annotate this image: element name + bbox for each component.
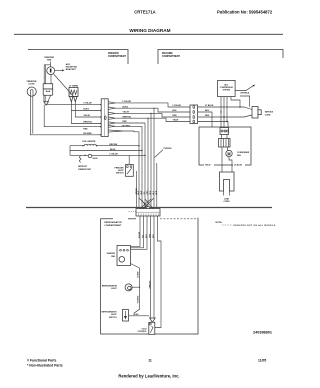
svg-text:BRACKET: BRACKET	[66, 68, 77, 71]
svg-text:YEL/W: YEL/W	[83, 115, 89, 117]
svg-text:ORANGE: ORANGE	[148, 280, 151, 289]
svg-text:COMPARTMENT: COMPARTMENT	[162, 55, 181, 58]
svg-text:LT BLUE: LT BLUE	[83, 102, 92, 104]
svg-text:# Functional Parts: # Functional Parts	[27, 359, 57, 363]
svg-text:COIL HEATER: COIL HEATER	[82, 140, 96, 143]
svg-text:Publication No: 5995454872: Publication No: 5995454872	[217, 10, 273, 15]
svg-text:ORG: ORG	[149, 233, 151, 238]
svg-text:DENOTES NOT ON ALL MODELS.: DENOTES NOT ON ALL MODELS.	[234, 224, 277, 227]
svg-text:YELW: YELW	[205, 164, 211, 166]
svg-text:BLK: BLK	[173, 110, 178, 112]
svg-text:Rendered by LeadVenture, Inc.: Rendered by LeadVenture, Inc.	[118, 374, 179, 379]
svg-text:BLK/W: BLK/W	[139, 232, 141, 238]
svg-text:LT BLUE: LT BLUE	[123, 101, 132, 103]
svg-text:REFRIGERATOR: REFRIGERATOR	[102, 311, 118, 314]
svg-text:BRN/YEL: BRN/YEL	[123, 116, 133, 118]
svg-text:YEL/RED: YEL/RED	[138, 295, 140, 303]
svg-text:BRN/YEL: BRN/YEL	[83, 121, 93, 123]
svg-text:FAN: FAN	[47, 59, 52, 62]
svg-text:YEL/RED: YEL/RED	[122, 126, 131, 128]
svg-text:LIGHT: LIGHT	[111, 288, 118, 290]
svg-text:FAN: FAN	[237, 154, 241, 157]
svg-text:BLK/W: BLK/W	[138, 271, 140, 277]
svg-text:CORD: CORD	[265, 114, 271, 116]
svg-text:YELW: YELW	[173, 120, 179, 122]
svg-text:SWITCH: SWITCH	[116, 173, 124, 175]
svg-text:DAMPER: DAMPER	[107, 252, 116, 255]
svg-text:LINE: LINE	[224, 198, 229, 200]
svg-text:BLKS: BLKS	[83, 109, 89, 111]
svg-text:FAN: FAN	[111, 255, 115, 258]
svg-text:COMPARTMENT: COMPARTMENT	[104, 224, 122, 227]
svg-text:MACHINE: MACHINE	[162, 52, 173, 55]
svg-text:CORD: CORD	[223, 201, 230, 203]
svg-text:REFRIGERATOR: REFRIGERATOR	[102, 285, 118, 288]
svg-text:BULB: BULB	[93, 158, 98, 160]
svg-text:THERMOSTAT: THERMOSTAT	[78, 168, 92, 171]
svg-text:REFRIGERATOR: REFRIGERATOR	[104, 221, 122, 224]
svg-text:YEL/W: YEL/W	[123, 112, 129, 114]
svg-text:LT BLUE: LT BLUE	[109, 154, 118, 156]
svg-text:* Non-Illustrated Parts: * Non-Illustrated Parts	[27, 364, 63, 368]
svg-text:RED: RED	[173, 115, 178, 117]
svg-text:COMPARTMENT: COMPARTMENT	[108, 55, 127, 58]
svg-text:FREEZER: FREEZER	[108, 53, 119, 55]
svg-text:11: 11	[148, 359, 152, 363]
svg-text:CONTROL: CONTROL	[137, 331, 147, 333]
svg-text:240398801: 240398801	[253, 331, 272, 335]
svg-text:BLUE: BLUE	[110, 149, 116, 151]
svg-text:RED: RED	[123, 121, 128, 123]
svg-text:11/05: 11/05	[258, 359, 266, 363]
svg-text:NOTE:: NOTE:	[216, 222, 223, 224]
svg-text:ORG: ORG	[147, 190, 149, 195]
svg-text:SERVICE: SERVICE	[265, 111, 274, 113]
svg-text:LIGHT: LIGHT	[28, 83, 35, 85]
svg-text:BROWN: BROWN	[109, 144, 117, 146]
svg-text:SYSTEM: SYSTEM	[223, 90, 231, 92]
svg-text:SWITCH: SWITCH	[109, 317, 117, 319]
svg-text:WIRING DIAGRAM: WIRING DIAGRAM	[129, 28, 170, 33]
svg-text:CRTE171A: CRTE171A	[134, 10, 155, 15]
svg-text:WHT/BLK: WHT/BLK	[241, 92, 250, 94]
svg-text:BLUE: BLUE	[134, 314, 140, 316]
svg-text:LT BLUE: LT BLUE	[173, 105, 182, 107]
svg-text:BLKS: BLKS	[123, 106, 129, 108]
svg-text:RED: RED	[83, 128, 88, 130]
svg-text:LT BLUE: LT BLUE	[234, 164, 243, 166]
svg-text:YEL/RED: YEL/RED	[83, 133, 92, 135]
svg-text:PURPLE: PURPLE	[164, 148, 173, 150]
svg-text:LT HARN: LT HARN	[69, 84, 78, 87]
